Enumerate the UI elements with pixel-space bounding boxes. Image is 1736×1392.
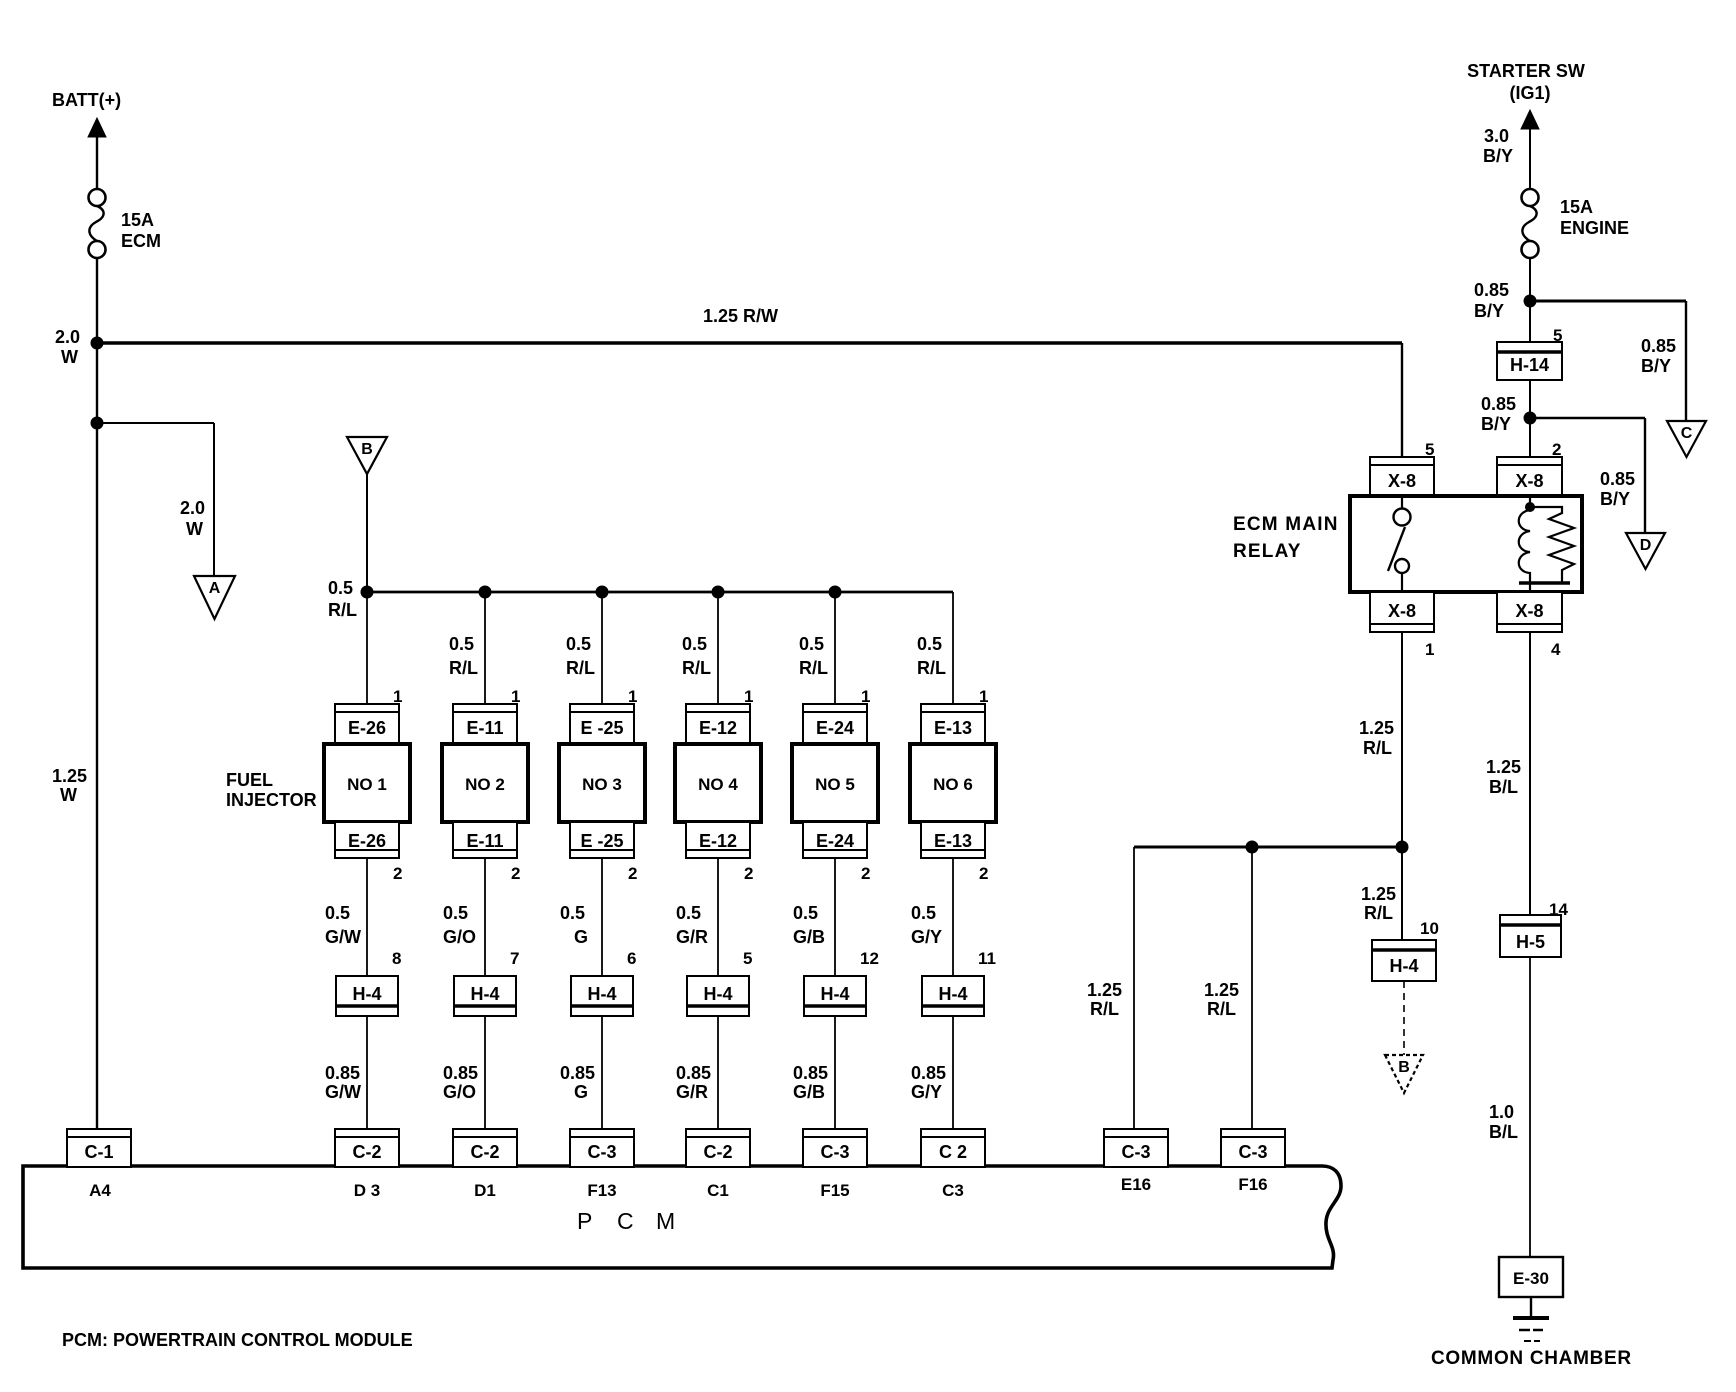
connector C-1 (PCM pin A4) [67, 1129, 131, 1167]
wire 1.25 B/L from relay pin 4 [1529, 632, 1531, 915]
wire 0.5 R/L drop to injector 6 [952, 592, 954, 705]
connector C-2 (PCM pin D1) [453, 1129, 517, 1167]
wire label 0.5 R/L (injector 2) [449, 634, 478, 678]
wire label 0.5 G/Y [911, 903, 942, 947]
pin 1 of connector E-24 [861, 687, 870, 706]
connector H-4 (injector 2) [454, 976, 516, 1016]
node STARTER SW (IG1) label [1467, 61, 1585, 103]
fuse 15A ECM [89, 189, 106, 258]
wire 0.85 G/W H-4 to PCM [366, 1016, 368, 1129]
svg-text:G/R: G/R [676, 927, 708, 947]
fuel injector NO 3 [559, 744, 645, 822]
svg-text:11: 11 [978, 949, 996, 968]
pin 11 of connector H-4 [978, 949, 996, 968]
svg-text:B/L: B/L [1489, 1122, 1518, 1142]
relay coil [1519, 510, 1530, 583]
wire label 0.85 G [560, 1063, 595, 1102]
svg-text:H-14: H-14 [1510, 355, 1549, 375]
svg-text:D1: D1 [474, 1181, 496, 1200]
connector H-4 (injector 3) [571, 976, 633, 1016]
svg-text:8: 8 [392, 949, 401, 968]
svg-text:H-4: H-4 [938, 984, 967, 1004]
svg-text:D 3: D 3 [354, 1181, 380, 1200]
svg-text:R/L: R/L [799, 658, 828, 678]
connector E-13 (bottom) [921, 822, 985, 858]
wire label 0.85 G/Y [911, 1063, 946, 1102]
connector E -25 (bottom) [570, 822, 634, 858]
wire label 2.0 W [55, 327, 80, 367]
svg-text:C-2: C-2 [703, 1142, 732, 1162]
wire 0.85 B/Y fuse to relay [1529, 258, 1531, 457]
connector X-8 (relay pin 5) [1370, 457, 1434, 496]
svg-text:7: 7 [510, 949, 519, 968]
wire label 0.5 R/L (bus) [328, 578, 357, 620]
svg-text:NO 1: NO 1 [347, 775, 387, 794]
svg-text:0.85: 0.85 [443, 1063, 478, 1083]
svg-text:0.5: 0.5 [799, 634, 824, 654]
power arrow to STARTER SW [1521, 110, 1539, 189]
ground (common chamber) [1513, 1297, 1549, 1341]
wire label 0.5 R/L (injector 6) [917, 634, 946, 678]
value label 15A ENGINE [1560, 197, 1629, 238]
svg-text:2: 2 [861, 864, 870, 883]
wire label 1.25 W [52, 766, 87, 805]
svg-text:B/Y: B/Y [1483, 146, 1513, 166]
wire label 1.25 R/L (to H-4) [1361, 884, 1396, 923]
value label 15A ECM [121, 210, 161, 251]
svg-text:A: A [209, 580, 221, 597]
junction injector bus node 5 [829, 586, 842, 599]
svg-text:2.0: 2.0 [55, 327, 80, 347]
pin 1 of connector E-11 [511, 687, 520, 706]
svg-text:R/L: R/L [1090, 999, 1119, 1019]
terminal label C1 [707, 1181, 729, 1200]
svg-text:C-3: C-3 [1121, 1142, 1150, 1162]
connector X-8 (relay pin 4) [1497, 592, 1562, 632]
svg-text:6: 6 [627, 949, 636, 968]
svg-text:0.5: 0.5 [449, 634, 474, 654]
wire 0.5 R/L drop to injector 2 [484, 592, 486, 705]
wire label 1.25 R/L (E16) [1087, 980, 1122, 1019]
connector C-3 (PCM pin F16) [1221, 1129, 1285, 1167]
wire label 0.85 G/B [793, 1063, 828, 1102]
svg-text:G/W: G/W [325, 1082, 361, 1102]
svg-text:C-2: C-2 [352, 1142, 381, 1162]
svg-text:C: C [617, 1208, 634, 1234]
svg-text:0.5: 0.5 [917, 634, 942, 654]
wire 0.85 G/Y H-4 to PCM [952, 1016, 954, 1129]
connector C 2 (PCM pin C3) [921, 1129, 985, 1167]
connector X-8 (relay pin 2) [1497, 457, 1562, 496]
wire label 0.85 B/Y (to C) [1641, 336, 1676, 376]
fuse 15A ENGINE [1522, 189, 1539, 258]
svg-text:C-3: C-3 [587, 1142, 616, 1162]
pin 2 of connector E -25 [628, 864, 637, 883]
pin 2 of connector E-24 [861, 864, 870, 883]
svg-text:2.0: 2.0 [180, 498, 205, 518]
svg-text:15A: 15A [121, 210, 154, 230]
connector E-12 (top) [686, 704, 750, 743]
svg-text:H-4: H-4 [1389, 956, 1418, 976]
pin 1 of connector E-12 [744, 687, 753, 706]
label COMMON CHAMBER [1431, 1348, 1632, 1369]
svg-text:E-13: E-13 [934, 718, 972, 738]
junction to connector D [1524, 412, 1537, 425]
svg-text:E-12: E-12 [699, 831, 737, 851]
relay ECM MAIN RELAY body [1350, 496, 1582, 592]
svg-text:G/Y: G/Y [911, 1082, 942, 1102]
pin 5 of connector H-4 [743, 949, 752, 968]
connector E-11 (top) [453, 704, 517, 743]
pin 7 of connector H-4 [510, 949, 519, 968]
wire label 1.25 R/L (relay out) [1359, 718, 1394, 758]
svg-text:R/L: R/L [1207, 999, 1236, 1019]
svg-text:0.85: 0.85 [793, 1063, 828, 1083]
terminal label E16 [1121, 1175, 1151, 1194]
svg-text:0.5: 0.5 [566, 634, 591, 654]
connector C-2 (PCM pin C1) [686, 1129, 750, 1167]
svg-text:NO 6: NO 6 [933, 775, 973, 794]
wire label 0.85 B/Y (upper) [1474, 280, 1509, 321]
svg-text:2: 2 [628, 864, 637, 883]
connector H-5 [1500, 915, 1561, 957]
pin 8 of connector H-4 [392, 949, 401, 968]
svg-text:E-24: E-24 [816, 718, 854, 738]
svg-text:0.85: 0.85 [1641, 336, 1676, 356]
svg-text:X-8: X-8 [1515, 601, 1543, 621]
svg-text:12: 12 [860, 949, 879, 968]
svg-text:X-8: X-8 [1515, 471, 1543, 491]
svg-text:1.25: 1.25 [1087, 980, 1122, 1000]
svg-text:1.25: 1.25 [1361, 884, 1396, 904]
svg-text:NO 5: NO 5 [815, 775, 855, 794]
svg-text:0.85: 0.85 [325, 1063, 360, 1083]
off-page connector B (top) [347, 437, 387, 474]
junction injector bus node 3 [596, 586, 609, 599]
svg-text:H-4: H-4 [703, 984, 732, 1004]
junction branch to A [91, 417, 104, 430]
wire 0.5 G injector 3 to H-4 [601, 858, 603, 976]
svg-text:B: B [361, 441, 373, 458]
connector E-13 (top) [921, 704, 985, 743]
svg-text:0.5: 0.5 [676, 903, 701, 923]
svg-text:E-24: E-24 [816, 831, 854, 851]
connector H-4 (injector 6) [922, 976, 984, 1016]
svg-text:W: W [60, 785, 77, 805]
svg-text:E16: E16 [1121, 1175, 1151, 1194]
junction R/L to F16 [1246, 841, 1259, 854]
svg-text:X-8: X-8 [1388, 601, 1416, 621]
wire 0.5 R/L bus across injectors [367, 591, 953, 594]
svg-text:STARTER SW: STARTER SW [1467, 61, 1585, 81]
terminal label F16 [1238, 1175, 1267, 1194]
wire 0.5 G/O injector 2 to H-4 [484, 858, 486, 976]
svg-text:0.85: 0.85 [560, 1063, 595, 1083]
wire label 1.25 R/L (F16) [1204, 980, 1239, 1019]
node BATT(+) label [52, 90, 121, 110]
svg-text:0.5: 0.5 [443, 903, 468, 923]
relay coil bottom bar [1519, 583, 1570, 592]
svg-text:B/Y: B/Y [1641, 356, 1671, 376]
svg-text:0.5: 0.5 [560, 903, 585, 923]
svg-text:ENGINE: ENGINE [1560, 218, 1629, 238]
svg-text:G/Y: G/Y [911, 927, 942, 947]
svg-text:G: G [574, 1082, 588, 1102]
svg-text:R/L: R/L [328, 600, 357, 620]
wire label 0.85 G/O [443, 1063, 478, 1102]
svg-text:W: W [61, 347, 78, 367]
svg-text:0.5: 0.5 [911, 903, 936, 923]
wire 0.5 G/Y injector 6 to H-4 [952, 858, 954, 976]
pin 4 of relay connector X-8 (bottom right) [1551, 640, 1561, 659]
wire to connector B (bottom) [1403, 981, 1405, 1055]
pin 5 of relay connector X-8 (top left) [1425, 440, 1434, 459]
svg-text:0.85: 0.85 [1600, 469, 1635, 489]
svg-text:B/Y: B/Y [1474, 301, 1504, 321]
svg-text:1.25 R/W: 1.25 R/W [703, 306, 778, 326]
svg-text:E-11: E-11 [466, 718, 503, 738]
svg-text:E-12: E-12 [699, 718, 737, 738]
relay switch contact [1388, 496, 1411, 592]
svg-text:R/L: R/L [449, 658, 478, 678]
svg-text:PCM: POWERTRAIN CONTROL MODULE: PCM: POWERTRAIN CONTROL MODULE [62, 1330, 413, 1350]
wire 0.5 G/B injector 5 to H-4 [834, 858, 836, 976]
pin 2 of connector E-13 [979, 864, 988, 883]
connector H-14 [1497, 342, 1562, 380]
connector X-8 (relay pin 1) [1370, 592, 1434, 632]
svg-text:0.85: 0.85 [1474, 280, 1509, 300]
pin 12 of connector H-4 [860, 949, 879, 968]
svg-text:0.5: 0.5 [325, 903, 350, 923]
svg-text:H-4: H-4 [470, 984, 499, 1004]
pin 1 of connector E-13 [979, 687, 988, 706]
svg-text:C-3: C-3 [820, 1142, 849, 1162]
pin 1 of connector E-26 [393, 687, 402, 706]
wire label 3.0 B/Y [1483, 126, 1513, 166]
svg-text:B/Y: B/Y [1481, 414, 1511, 434]
connector E-30 [1499, 1257, 1563, 1297]
wire 0.5 R/L drop to injector 3 [601, 592, 603, 705]
wire label 0.5 G [560, 903, 588, 947]
svg-text:E-26: E-26 [348, 718, 386, 738]
wire label 1.25 B/L [1486, 757, 1521, 797]
svg-text:E -25: E -25 [580, 718, 623, 738]
svg-text:C: C [1681, 425, 1693, 442]
connector C-2 (PCM pin D 3) [335, 1129, 399, 1167]
connector E-24 (bottom) [803, 822, 867, 858]
svg-text:F16: F16 [1238, 1175, 1267, 1194]
fuel injector NO 1 [324, 744, 410, 822]
svg-text:1: 1 [1425, 640, 1434, 659]
terminal label F13 [587, 1181, 616, 1200]
wire 2.0 W vertical from fuse to PCM C-1 [96, 258, 98, 1129]
connector E-12 (bottom) [686, 822, 750, 858]
junction injector bus node 1 [361, 586, 374, 599]
svg-text:B: B [1398, 1059, 1410, 1076]
svg-text:COMMON CHAMBER: COMMON CHAMBER [1431, 1348, 1632, 1369]
connector H-4 (injector 1) [336, 976, 398, 1016]
svg-text:(IG1): (IG1) [1509, 83, 1550, 103]
svg-text:2: 2 [511, 864, 520, 883]
pin 14 of connector H-5 [1549, 900, 1568, 919]
wire label 2.0 W (branch) [180, 498, 205, 539]
junction injector bus node 2 [479, 586, 492, 599]
svg-text:P: P [577, 1208, 592, 1234]
off-page connector C [1667, 421, 1706, 457]
connector H-4 (relay output) [1372, 940, 1436, 981]
pin 1 of connector E -25 [628, 687, 637, 706]
pin 10 of connector H-4 [1420, 919, 1439, 938]
svg-text:G/B: G/B [793, 927, 825, 947]
svg-text:2: 2 [393, 864, 402, 883]
svg-text:2: 2 [979, 864, 988, 883]
relay resistor (parallel with coil) [1530, 507, 1574, 583]
wire 1.0 B/L to common chamber [1529, 957, 1531, 1257]
svg-text:FUEL: FUEL [226, 770, 273, 790]
pin 5 of connector H-14 [1553, 326, 1562, 345]
connector E-26 (top) [335, 704, 399, 743]
svg-text:R/L: R/L [917, 658, 946, 678]
pin 2 of connector E-26 [393, 864, 402, 883]
wire 0.5 R/L drop to injector 1 [366, 592, 368, 705]
note PCM: POWERTRAIN CONTROL MODULE [62, 1330, 413, 1350]
relay coil junction [1525, 496, 1535, 512]
svg-text:R/L: R/L [1364, 903, 1393, 923]
terminal label C3 [942, 1181, 964, 1200]
svg-text:W: W [186, 519, 203, 539]
svg-text:0.5: 0.5 [328, 578, 353, 598]
svg-text:1.25: 1.25 [1486, 757, 1521, 777]
svg-text:C3: C3 [942, 1181, 964, 1200]
pin 1 of relay connector X-8 (bottom left) [1425, 640, 1434, 659]
pin 2 of connector E-12 [744, 864, 753, 883]
wire label 1.0 B/L [1489, 1102, 1518, 1142]
svg-text:1.0: 1.0 [1489, 1102, 1514, 1122]
connector H-4 (injector 5) [804, 976, 866, 1016]
wire label 0.5 G/R [676, 903, 708, 947]
wire label 0.5 G/W [325, 903, 361, 947]
svg-text:15A: 15A [1560, 197, 1593, 217]
wire 0.5 R/L drop to injector 4 [717, 592, 719, 705]
svg-text:NO 3: NO 3 [582, 775, 622, 794]
svg-text:BATT(+): BATT(+) [52, 90, 121, 110]
svg-text:R/L: R/L [682, 658, 711, 678]
wire label 0.5 R/L (injector 5) [799, 634, 828, 678]
svg-text:RELAY: RELAY [1233, 541, 1302, 562]
wire label 0.85 B/Y (lower) [1481, 394, 1516, 434]
svg-text:C-2: C-2 [470, 1142, 499, 1162]
label FUEL INJECTOR [226, 770, 317, 810]
svg-text:2: 2 [744, 864, 753, 883]
svg-text:E-11: E-11 [466, 831, 503, 851]
connector C-3 (PCM pin F15) [803, 1129, 867, 1167]
svg-text:0.85: 0.85 [911, 1063, 946, 1083]
off-page connector B (bottom, dotted) [1385, 1055, 1423, 1093]
svg-text:E-30: E-30 [1513, 1269, 1549, 1288]
svg-text:1.25: 1.25 [52, 766, 87, 786]
PCM (powertrain control module) box [23, 1166, 1341, 1268]
svg-text:0.5: 0.5 [793, 903, 818, 923]
svg-text:F15: F15 [820, 1181, 849, 1200]
wire 1.25 R/W drop into relay pin 5 [1401, 343, 1403, 457]
power arrow to BATT(+) [88, 118, 106, 189]
fuel injector NO 5 [792, 744, 878, 822]
wire label 0.5 G/O [443, 903, 476, 947]
wire 0.85 G H-4 to PCM [601, 1016, 603, 1129]
svg-text:E-26: E-26 [348, 831, 386, 851]
svg-text:1.25: 1.25 [1204, 980, 1239, 1000]
svg-text:5: 5 [743, 949, 752, 968]
connector E-11 (bottom) [453, 822, 517, 858]
pin 6 of connector H-4 [627, 949, 636, 968]
wire branch to connector A [97, 423, 214, 576]
PCM title text [577, 1208, 675, 1234]
junction at 2.0W / 1.25 R/W [91, 337, 104, 350]
wire 0.5 G/R injector 4 to H-4 [717, 858, 719, 976]
svg-text:H-4: H-4 [820, 984, 849, 1004]
svg-text:M: M [656, 1208, 675, 1234]
wire 1.25 R/W horizontal to ECM main relay [97, 341, 1402, 344]
pin 2 of connector E-11 [511, 864, 520, 883]
terminal label A4 [89, 1181, 111, 1200]
pin 2 of relay connector X-8 (top right) [1552, 440, 1561, 459]
wire label 0.85 G/R [676, 1063, 711, 1102]
connector E -25 (top) [570, 704, 634, 743]
terminal label F15 [820, 1181, 849, 1200]
junction to connector C [1524, 295, 1537, 308]
svg-text:R/L: R/L [566, 658, 595, 678]
wire from B to injector bus [366, 474, 368, 592]
svg-text:A4: A4 [89, 1181, 111, 1200]
fuel injector NO 6 [910, 744, 996, 822]
svg-text:F13: F13 [587, 1181, 616, 1200]
svg-text:H-5: H-5 [1516, 932, 1545, 952]
wire label 0.5 G/B [793, 903, 825, 947]
wire branch to connector D [1530, 418, 1645, 533]
svg-text:G/B: G/B [793, 1082, 825, 1102]
label ECM MAIN RELAY [1233, 514, 1339, 562]
svg-text:0.5: 0.5 [682, 634, 707, 654]
svg-text:G/R: G/R [676, 1082, 708, 1102]
svg-text:INJECTOR: INJECTOR [226, 790, 317, 810]
wire 0.85 G/R H-4 to PCM [717, 1016, 719, 1129]
fuel injector NO 4 [675, 744, 761, 822]
terminal label D1 [474, 1181, 496, 1200]
svg-text:B/Y: B/Y [1600, 489, 1630, 509]
svg-text:1.25: 1.25 [1359, 718, 1394, 738]
wire label 0.5 R/L (injector 4) [682, 634, 711, 678]
svg-text:ECM MAIN: ECM MAIN [1233, 514, 1339, 535]
connector E-26 (bottom) [335, 822, 399, 858]
fuel injector NO 2 [442, 744, 528, 822]
wire 0.85 G/B H-4 to PCM [834, 1016, 836, 1129]
svg-text:D: D [1640, 537, 1652, 554]
wire 1.25 R/L to PCM E16 [1133, 847, 1135, 1129]
junction injector bus node 4 [712, 586, 725, 599]
svg-text:E-13: E-13 [934, 831, 972, 851]
wire 1.25 R/L from relay pin 1 [1401, 632, 1403, 940]
svg-text:C-3: C-3 [1238, 1142, 1267, 1162]
wire 0.5 G/W injector 1 to H-4 [366, 858, 368, 976]
svg-text:ECM: ECM [121, 231, 161, 251]
svg-text:R/L: R/L [1363, 738, 1392, 758]
junction R/L distribution [1396, 841, 1409, 854]
svg-text:NO 4: NO 4 [698, 775, 738, 794]
wire R/L distribution horizontal [1134, 846, 1402, 849]
svg-text:NO 2: NO 2 [465, 775, 505, 794]
svg-text:0.85: 0.85 [676, 1063, 711, 1083]
svg-text:E -25: E -25 [580, 831, 623, 851]
